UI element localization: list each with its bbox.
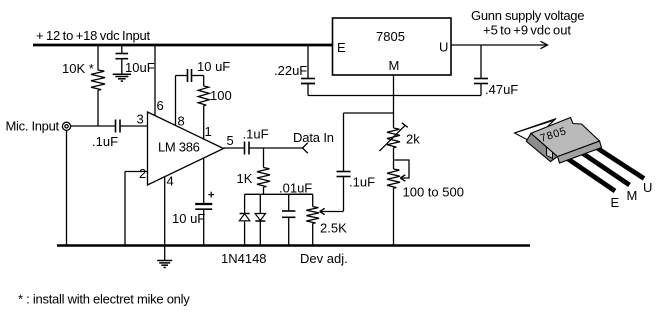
svg-text:LM 386: LM 386	[158, 140, 200, 155]
svg-text:1K: 1K	[237, 171, 253, 186]
svg-text:1: 1	[205, 124, 212, 139]
svg-text:10 uF: 10 uF	[197, 59, 230, 74]
svg-text:Data In: Data In	[293, 130, 334, 145]
svg-text:10uF: 10uF	[125, 60, 155, 75]
svg-text:E: E	[611, 195, 620, 210]
svg-text:* : install with electret mike: * : install with electret mike only	[18, 292, 190, 307]
svg-text:2k: 2k	[406, 132, 420, 147]
svg-text:Gunn supply voltage: Gunn supply voltage	[471, 8, 584, 23]
svg-text:3: 3	[137, 112, 144, 127]
svg-text:8: 8	[178, 114, 185, 129]
svg-text:U: U	[643, 180, 652, 195]
svg-text:.1uF: .1uF	[243, 127, 269, 142]
svg-text:E: E	[337, 40, 346, 55]
svg-text:2: 2	[139, 166, 146, 181]
svg-text:+ 12 to +18 vdc Input: + 12 to +18 vdc Input	[36, 28, 151, 43]
svg-text:10K *: 10K *	[62, 61, 94, 76]
svg-text:U: U	[439, 40, 448, 55]
svg-text:2.5K: 2.5K	[320, 221, 347, 236]
svg-text:5: 5	[227, 133, 234, 148]
svg-text:Dev adj.: Dev adj.	[300, 251, 348, 266]
svg-text:1N4148: 1N4148	[221, 251, 267, 266]
svg-text:10 uF: 10 uF	[172, 211, 205, 226]
svg-text:M: M	[627, 188, 638, 203]
svg-text:.47uF: .47uF	[485, 82, 518, 97]
svg-text:.22uF: .22uF	[274, 63, 307, 78]
svg-text:7805: 7805	[376, 29, 405, 44]
svg-text:.01uF: .01uF	[279, 181, 312, 196]
svg-text:.1uF: .1uF	[349, 175, 375, 190]
svg-text:M: M	[389, 58, 400, 73]
svg-text:+5 to +9 vdc out: +5 to +9 vdc out	[483, 23, 571, 38]
svg-text:100 to 500: 100 to 500	[403, 185, 464, 200]
svg-text:4: 4	[167, 174, 174, 189]
svg-text:Mic. Input: Mic. Input	[6, 119, 60, 134]
svg-text:6: 6	[157, 98, 164, 113]
svg-text:.1uF: .1uF	[92, 134, 118, 149]
svg-text:100: 100	[210, 88, 232, 103]
